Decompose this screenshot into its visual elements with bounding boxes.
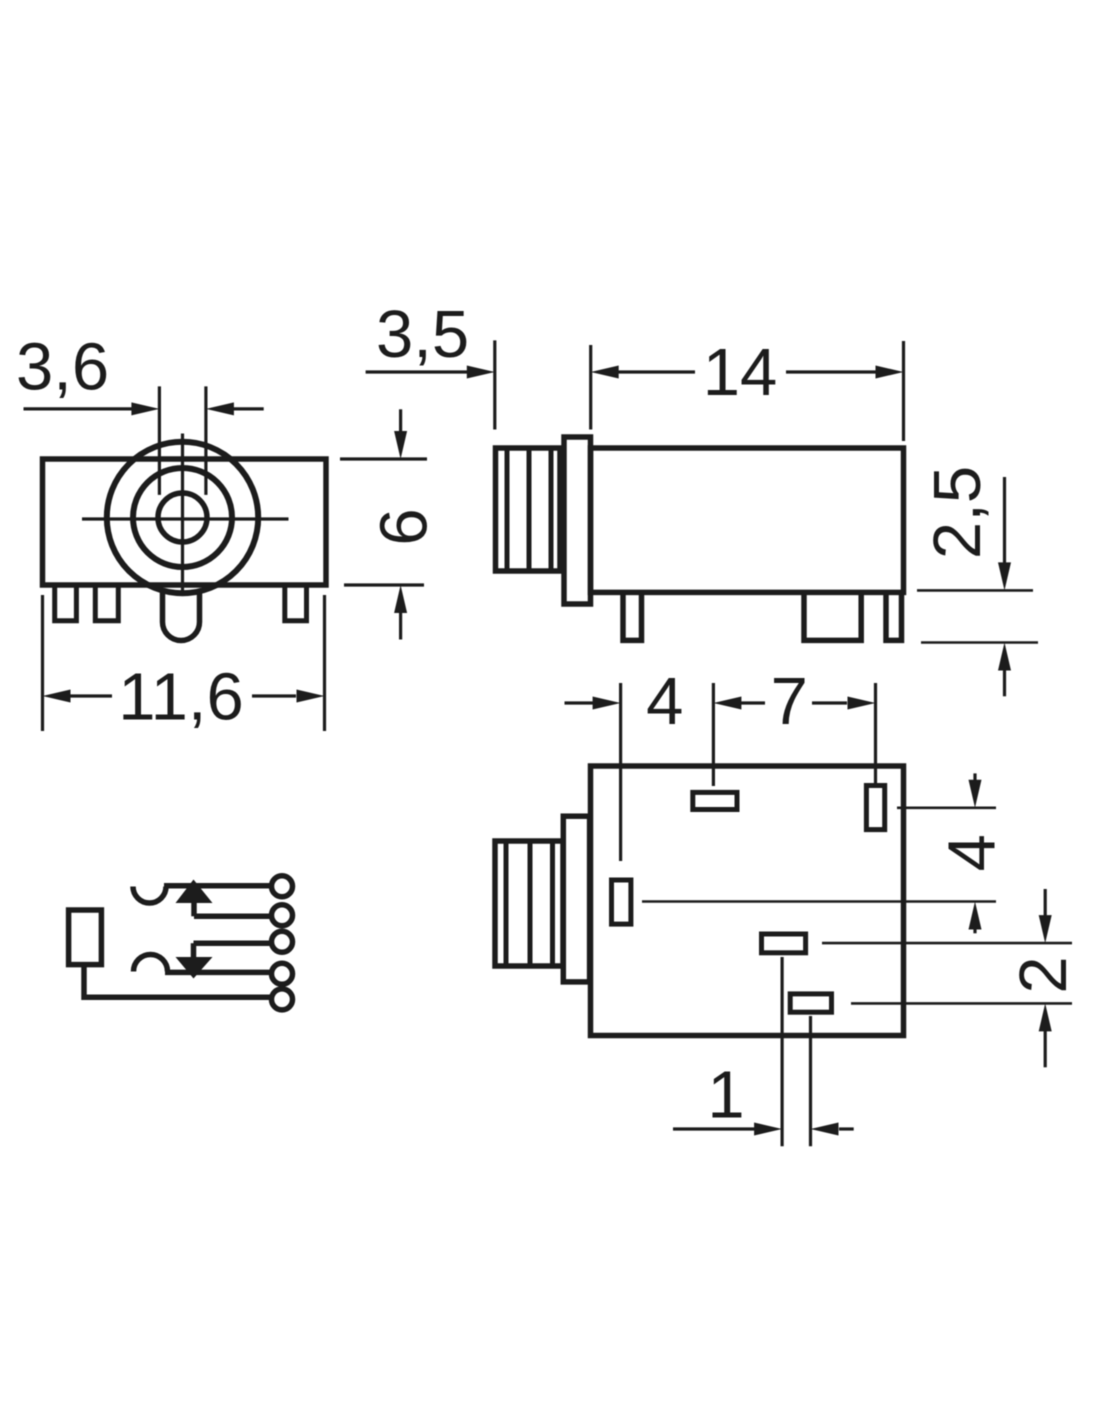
svg-text:2: 2 — [1006, 956, 1081, 993]
arrow stem from terminal 3 — [191, 943, 197, 958]
vertical centerline — [181, 434, 184, 596]
sleeve wire down — [84, 965, 271, 998]
sleeve rectangle — [69, 910, 102, 965]
contact line to terminal 4 — [165, 970, 271, 976]
ring contact hook (bottom) — [134, 955, 168, 972]
contact line to terminal 1 — [164, 883, 271, 889]
ref line from pad5 — [851, 1002, 1072, 1005]
horizontal centerline — [82, 517, 289, 520]
svg-text:11,6: 11,6 — [118, 660, 243, 735]
svg-text:4: 4 — [646, 664, 683, 739]
dim 11,6 extension lines — [41, 595, 44, 731]
inner circle (3,6 hole) — [158, 493, 207, 542]
front leg 2 — [95, 587, 118, 621]
svg-text:3,5: 3,5 — [376, 297, 469, 372]
dim 2,5 extension lines — [917, 589, 1033, 592]
terminal circle 1 — [272, 876, 293, 897]
pad P4 (centre) — [762, 934, 806, 953]
switch arrow (up) — [176, 880, 213, 904]
bottom collar — [563, 816, 589, 982]
pad P3 (left) — [612, 880, 631, 924]
extension line pad1 centre — [712, 683, 715, 786]
dim 2 (right) arrows — [1044, 889, 1047, 917]
terminal circle 2 — [272, 905, 293, 926]
svg-text:2,5: 2,5 — [920, 466, 995, 559]
dim 3,5 line + arrow — [366, 370, 468, 373]
svg-text:3,6: 3,6 — [16, 330, 109, 405]
side body rectangle — [591, 448, 904, 592]
pad P2 (top right) — [866, 786, 884, 830]
side wide leg — [804, 594, 861, 640]
ref line from pad2 — [897, 806, 996, 809]
dim 14 line + arrows — [591, 366, 619, 379]
pad P5 (bottom) — [790, 994, 831, 1012]
dim 4 (top) line + arrow — [565, 701, 595, 704]
dim 3,6 line + arrows — [24, 407, 133, 410]
svg-text:4: 4 — [935, 834, 1010, 871]
dim 4 (right) arrows — [973, 773, 976, 782]
terminal circle 4 — [272, 963, 293, 984]
dim 6 arrows — [399, 409, 402, 435]
dim 3,5 extension lines — [493, 340, 496, 429]
front leg 3 — [285, 587, 307, 621]
dim 11,6 line + arrows — [43, 690, 71, 703]
line to terminal 2 — [194, 914, 271, 920]
svg-text:1: 1 — [707, 1058, 744, 1133]
ref line from pad4 — [822, 942, 1072, 945]
dim 14 extension line right — [902, 341, 905, 441]
switch arrow (down) — [176, 957, 213, 979]
extension line pad3 centre — [619, 683, 622, 861]
dim 1 extension lines — [780, 957, 783, 1146]
tip contact hook (top) — [133, 887, 166, 904]
collar nut — [564, 437, 591, 604]
side narrow leg — [886, 594, 902, 640]
terminal circle 3 — [272, 931, 293, 952]
dim 2,5 arrows — [1003, 477, 1006, 565]
dim 3,6 extension lines — [158, 386, 161, 495]
svg-text:6: 6 — [367, 508, 442, 545]
jack body front rectangle — [43, 459, 327, 585]
extension line pad2 centre — [874, 683, 877, 783]
terminal circle 5 — [272, 989, 293, 1010]
side leg 1 — [623, 594, 642, 640]
pad P1 (top centre) — [693, 792, 737, 809]
dim 7 line + arrows — [713, 697, 741, 710]
middle circle — [133, 468, 232, 567]
dim 6 extension lines — [340, 457, 427, 460]
mounting bump below body — [163, 590, 200, 641]
outer barrel circle — [107, 442, 258, 593]
line to terminal 3 — [194, 940, 272, 946]
bottom barrel — [495, 841, 563, 966]
svg-text:7: 7 — [771, 664, 808, 739]
dim 1 line + arrows — [673, 1127, 757, 1130]
ref line from pad3 — [642, 900, 996, 903]
arrow stem to terminal 2 — [191, 901, 197, 916]
front leg 1 — [55, 587, 77, 621]
bottom body rectangle — [591, 766, 904, 1036]
svg-text:14: 14 — [703, 335, 778, 410]
threaded barrel — [496, 448, 561, 571]
